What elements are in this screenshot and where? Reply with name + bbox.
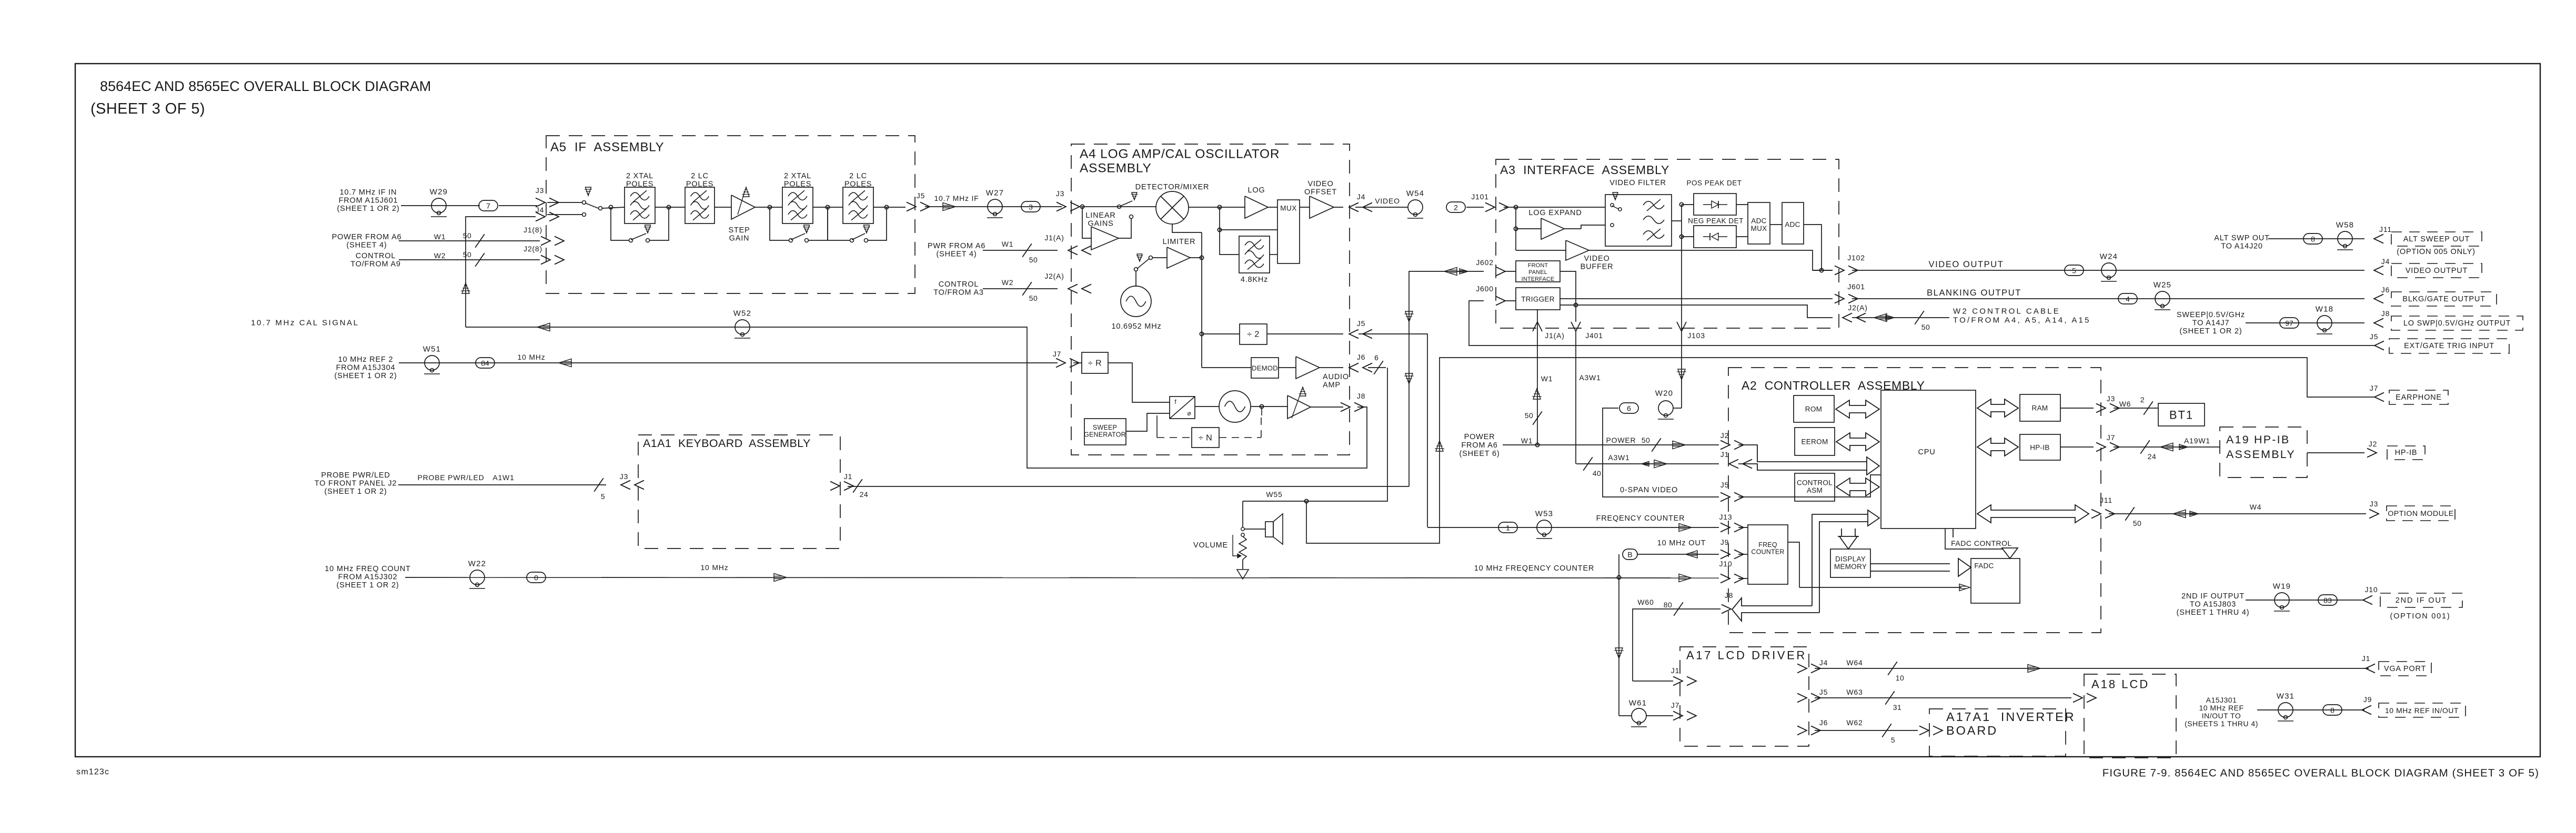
wire freq counter J13: [1427, 527, 1719, 528]
ref oval 1: [1498, 522, 1517, 533]
assembly box A1A1 KEYBOARD ASSEMBLY: [638, 435, 840, 548]
block DEMOD: [1202, 367, 1251, 368]
svg-text:POS PEAK DET: POS PEAK DET: [1686, 179, 1742, 187]
svg-text:A3W1: A3W1: [1579, 373, 1601, 382]
wire A19 to J2: [2307, 452, 2364, 453]
svg-text:W22: W22: [468, 560, 486, 568]
ref oval 6: [1619, 403, 1638, 413]
svg-text:J601: J601: [1847, 282, 1865, 291]
svg-text:10 MHz: 10 MHz: [700, 563, 728, 572]
svg-text:J2: J2: [1720, 431, 1729, 440]
svg-text:A3W1: A3W1: [1608, 453, 1629, 462]
wire 10 MHz out: [1637, 554, 1719, 555]
svg-text:J3: J3: [620, 472, 628, 481]
svg-text:24: 24: [2148, 452, 2157, 461]
wire W63 to LCD: [1815, 697, 2071, 698]
ref oval 8 (10 MHz ref): [2323, 705, 2342, 715]
ref oval 83: [2318, 595, 2337, 605]
svg-text:÷ R: ÷ R: [1088, 359, 1102, 368]
wire LO SWP output: [2246, 322, 2364, 323]
svg-text:BUFFER: BUFFER: [1581, 263, 1614, 271]
block ADC MUX: [1748, 202, 1770, 244]
svg-text:ASSEMBLY: ASSEMBLY: [2226, 448, 2296, 461]
svg-text:ø: ø: [1187, 410, 1191, 417]
connector into A17A1: [1919, 726, 1929, 735]
svg-text:J13: J13: [1719, 513, 1733, 521]
wire FADC control: [1945, 529, 2010, 552]
svg-text:ADC: ADC: [1751, 217, 1766, 225]
wire 0-span video: [1603, 408, 1719, 497]
svg-text:W51: W51: [423, 345, 441, 354]
wire ext/gate trig to TRIGGER: [1469, 301, 2376, 346]
svg-text:50: 50: [1525, 411, 1534, 420]
ref oval 8 (alt sweep): [2303, 233, 2322, 244]
svg-text:FROM A6: FROM A6: [1461, 441, 1497, 450]
svg-text:10.7 MHz IF IN: 10.7 MHz IF IN: [340, 188, 397, 197]
svg-text:POWER: POWER: [1464, 433, 1495, 441]
svg-text:J600: J600: [1476, 285, 1494, 293]
svg-text:(OPTION 005 ONLY): (OPTION 005 ONLY): [2397, 248, 2476, 256]
svg-text:MUX: MUX: [1751, 225, 1767, 232]
svg-text:DETECTOR/MIXER: DETECTOR/MIXER: [1135, 183, 1210, 191]
assembly box A5 IF ASSEMBLY: [546, 136, 915, 293]
svg-text:CONTROL: CONTROL: [1797, 479, 1833, 487]
svg-text:A15J301: A15J301: [2206, 696, 2237, 704]
svg-text:50: 50: [463, 231, 472, 240]
svg-text:INTERFACE: INTERFACE: [1522, 276, 1555, 282]
ref oval 4: [2118, 293, 2137, 304]
ref oval 3: [1021, 201, 1040, 212]
svg-text:SWEEP|0.5V/GHz: SWEEP|0.5V/GHz: [2177, 311, 2245, 319]
wire A4 J5 to freq counter: [1359, 334, 1427, 527]
wire: [813, 207, 843, 208]
cable W18: [2317, 316, 2332, 330]
svg-text:J602: J602: [1476, 258, 1494, 267]
svg-text:A1A1 KEYBOARD ASSEMBLY: A1A1 KEYBOARD ASSEMBLY: [643, 437, 811, 450]
svg-text:TRIGGER: TRIGGER: [1521, 296, 1555, 303]
wire: [1270, 254, 1277, 255]
wire 10 MHz riser: [1618, 554, 1619, 716]
wire J2 power into CPU: [1738, 445, 1867, 462]
svg-text:FROM A15J304: FROM A15J304: [336, 364, 396, 372]
svg-text:J8: J8: [2381, 309, 2390, 318]
cable W19: [2275, 593, 2289, 607]
svg-text:W1: W1: [1002, 240, 1014, 248]
svg-text:40: 40: [1593, 469, 1602, 478]
svg-text:31: 31: [1893, 703, 1902, 712]
ref oval 2: [1446, 202, 1465, 212]
wire: [715, 207, 731, 208]
svg-text:W24: W24: [2100, 252, 2118, 261]
svg-text:ROM: ROM: [1805, 405, 1822, 413]
svg-text:J11: J11: [2379, 225, 2392, 233]
svg-text:FROM A15J601: FROM A15J601: [339, 197, 398, 205]
block FADC: [1971, 558, 2020, 603]
svg-text:A19W1: A19W1: [2184, 436, 2210, 445]
wire VIDEO: [1355, 207, 1408, 208]
wire J6 audio to volume: [1368, 367, 1386, 368]
svg-text:J5: J5: [1720, 481, 1729, 489]
svg-text:(SHEET 1 OR 2): (SHEET 1 OR 2): [337, 205, 400, 213]
svg-text:CONTROL: CONTROL: [356, 252, 396, 260]
block TRIGGER: [1516, 288, 1560, 310]
block f/phase detector: [1170, 397, 1195, 419]
svg-text:EXT/GATE TRIG INPUT: EXT/GATE TRIG INPUT: [2404, 342, 2494, 350]
svg-text:J4: J4: [1819, 658, 1828, 667]
svg-text:J11: J11: [2100, 496, 2112, 504]
svg-text:(SHEET 1 OR 2): (SHEET 1 OR 2): [337, 581, 399, 590]
wire W64 VGA: [1815, 668, 2369, 669]
bus arrow CPU-RAM: [1977, 399, 2018, 417]
wire peak det junctions: [1681, 205, 1682, 237]
svg-text:A3 INTERFACE ASSEMBLY: A3 INTERFACE ASSEMBLY: [1500, 163, 1669, 177]
filter 4.8KHz: [1239, 236, 1270, 273]
ref oval B (10 MHz): [1623, 549, 1637, 560]
wire sweepgen to f-phase: [1126, 413, 1170, 431]
svg-text:J1: J1: [1671, 666, 1679, 675]
svg-text:W60: W60: [1637, 598, 1654, 606]
wire 10 MHz ref to A4 J7: [399, 362, 1058, 363]
block BT1 battery: [2158, 403, 2205, 426]
svg-text:FREQENCY COUNTER: FREQENCY COUNTER: [1596, 514, 1685, 523]
cable W24: [2101, 263, 2116, 278]
svg-text:50: 50: [1921, 323, 1930, 331]
wire to J5: [1267, 333, 1343, 334]
wire W1 to J1(8): [399, 240, 540, 241]
svg-text:W31: W31: [2277, 692, 2295, 701]
svg-text:NEG PEAK DET: NEG PEAK DET: [1688, 217, 1744, 225]
bus arrow CPU to display memory: [1839, 536, 1857, 549]
page border frame: [75, 64, 2540, 757]
svg-text:(SHEET 1 OR 2): (SHEET 1 OR 2): [2180, 327, 2242, 336]
svg-text:83: 83: [2323, 596, 2332, 605]
cable W27: [988, 199, 1002, 214]
wire J1 data into CPU: [1738, 464, 1867, 470]
wire power W1: [1503, 444, 1719, 445]
bypass switch 2: [770, 207, 789, 240]
amplifier AUDIO AMP: [1279, 367, 1296, 368]
svg-text:W62: W62: [1846, 718, 1863, 727]
wire FPI output to J401: [1560, 271, 1576, 322]
svg-text:W53: W53: [1535, 510, 1553, 519]
svg-text:J3: J3: [536, 186, 544, 195]
wire 10 MHz freqency counter long line: [405, 577, 1719, 578]
ref oval 0: [527, 572, 546, 583]
svg-text:J1(A): J1(A): [1044, 233, 1064, 242]
assembly box A4 LOG AMP/CAL OSCILLATOR ASSEMBLY: [1071, 144, 1350, 455]
ref oval 5: [2065, 265, 2084, 276]
svg-text:3: 3: [1029, 203, 1033, 211]
svg-text:J1(A): J1(A): [1545, 331, 1564, 340]
svg-text:W63: W63: [1846, 688, 1863, 696]
svg-text:80: 80: [1664, 601, 1673, 609]
svg-text:EEROM: EEROM: [1801, 438, 1828, 446]
svg-text:W61: W61: [1629, 699, 1647, 708]
cable W52: [735, 320, 750, 334]
svg-text:PANEL: PANEL: [1528, 269, 1547, 276]
svg-text:J103: J103: [1687, 331, 1705, 340]
svg-text:10 MHz FREQ COUNT: 10 MHz FREQ COUNT: [325, 565, 410, 573]
svg-text:÷ N: ÷ N: [1199, 434, 1212, 443]
svg-text:J6: J6: [1819, 718, 1828, 727]
svg-text:10 MHz REF IN/OUT: 10 MHz REF IN/OUT: [2385, 706, 2459, 715]
svg-text:TO A15J803: TO A15J803: [2190, 601, 2236, 609]
assembly box A17A1 INVERTER BOARD: [1929, 709, 2066, 756]
bus arrow CPU-J11: [1977, 505, 2089, 523]
svg-text:(SHEET 3 OF 5): (SHEET 3 OF 5): [90, 100, 205, 117]
assembly box A17 LCD DRIVER: [1680, 647, 1809, 746]
flow arrow: [943, 203, 955, 211]
svg-text:W25: W25: [2154, 281, 2171, 290]
svg-text:TO/FROM A3: TO/FROM A3: [933, 289, 984, 297]
speaker: [1244, 529, 1265, 530]
svg-text:ADC: ADC: [1785, 221, 1800, 229]
cable W25: [2155, 291, 2170, 306]
svg-text:2: 2: [2140, 395, 2145, 404]
dashed feedback wires: [1156, 415, 1158, 438]
svg-text:OPTION MODULE: OPTION MODULE: [2388, 510, 2454, 518]
svg-text:2ND IF OUT: 2ND IF OUT: [2396, 596, 2448, 605]
cable W51: [425, 355, 439, 370]
svg-text:W52: W52: [733, 309, 751, 318]
block EEROM: [1795, 428, 1835, 455]
cable W53: [1537, 520, 1552, 535]
svg-text:4: 4: [2126, 295, 2130, 303]
svg-text:J5: J5: [1357, 319, 1365, 328]
svg-text:J3: J3: [1056, 189, 1064, 198]
svg-text:J1(8): J1(8): [524, 226, 542, 234]
svg-text:POWER FROM A6: POWER FROM A6: [332, 233, 402, 241]
off-sheet arrow up: [462, 283, 469, 293]
svg-text:J2(A): J2(A): [1044, 272, 1064, 280]
svg-text:97: 97: [2285, 319, 2293, 328]
wire J8 fat arrow (display bus): [1732, 598, 1819, 621]
svg-text:2 LC: 2 LC: [691, 172, 709, 180]
svg-text:24: 24: [860, 490, 869, 499]
wire 10.7 MHz IF: [925, 206, 1062, 207]
svg-text:J3: J3: [2370, 500, 2378, 508]
bus arrow CONTROL ASM-CPU: [1836, 478, 1879, 496]
wire video buffer to J102: [1589, 250, 1833, 270]
svg-text:A19 HP-IB: A19 HP-IB: [2226, 433, 2290, 446]
svg-text:RAM: RAM: [2032, 404, 2048, 412]
wire J5 into CPU: [1738, 475, 1880, 497]
svg-text:PROBE PWR/LED: PROBE PWR/LED: [321, 471, 390, 480]
svg-text:J5: J5: [1819, 688, 1828, 696]
svg-text:W27: W27: [986, 189, 1004, 198]
cable W20: [1658, 401, 1673, 415]
svg-text:POWER: POWER: [1606, 436, 1636, 444]
svg-text:ALT SWEEP OUT: ALT SWEEP OUT: [2403, 235, 2470, 243]
svg-text:FADC CONTROL: FADC CONTROL: [1951, 539, 2012, 547]
bus arrow into CPU left: [1867, 457, 1879, 475]
svg-text:BOARD: BOARD: [1946, 724, 1998, 737]
wire filter out: [1672, 220, 1682, 221]
svg-text:J5: J5: [2370, 332, 2378, 341]
wire freq counter out: [1788, 542, 1799, 587]
svg-text:AUDIO: AUDIO: [1323, 373, 1349, 381]
svg-text:J101: J101: [1471, 192, 1489, 201]
svg-text:STEP: STEP: [728, 226, 750, 235]
wire mid tap: [1220, 207, 1277, 230]
svg-text:W54: W54: [1406, 189, 1424, 198]
svg-text:10 MHz REF: 10 MHz REF: [2199, 704, 2243, 712]
svg-text:(OPTION 001): (OPTION 001): [2390, 612, 2450, 621]
svg-text:BT1: BT1: [2169, 409, 2193, 422]
assembly box A18 LCD: [2084, 674, 2176, 758]
svg-text:1: 1: [1506, 524, 1510, 532]
svg-text:÷ 2: ÷ 2: [1247, 330, 1260, 339]
cable W61: [1632, 708, 1646, 723]
svg-text:50: 50: [1642, 436, 1651, 444]
svg-text:50: 50: [463, 250, 472, 259]
svg-text:5: 5: [1891, 736, 1895, 744]
wire: [873, 207, 905, 208]
svg-text:J3: J3: [2107, 394, 2115, 403]
svg-text:ASM: ASM: [1807, 486, 1823, 494]
svg-text:W6: W6: [2119, 400, 2131, 408]
svg-text:A1W1: A1W1: [492, 473, 514, 482]
wire W1 to J1(A): [983, 250, 1058, 251]
svg-text:W29: W29: [430, 188, 448, 197]
svg-text:MUX: MUX: [1280, 205, 1297, 212]
svg-text:ALT SWP OUT: ALT SWP OUT: [2214, 234, 2270, 242]
svg-text:J2(A): J2(A): [1848, 303, 1867, 312]
block divide-by-2: [1202, 333, 1240, 334]
svg-text:CPU: CPU: [1918, 448, 1935, 456]
svg-text:VGA PORT: VGA PORT: [2384, 665, 2426, 673]
svg-text:J7: J7: [2370, 384, 2378, 392]
svg-text:VOLUME: VOLUME: [1193, 541, 1228, 550]
svg-text:sm123c: sm123c: [76, 768, 109, 777]
block MUX: [1277, 200, 1300, 263]
svg-text:HP-IB: HP-IB: [2030, 444, 2050, 452]
svg-text:10 MHz OUT: 10 MHz OUT: [1657, 539, 1706, 547]
wire: [1189, 207, 1245, 208]
svg-text:VIDEO: VIDEO: [1307, 180, 1333, 188]
cable W58: [2338, 231, 2352, 246]
block DISPLAY MEMORY: [1830, 549, 1870, 577]
svg-text:J6: J6: [2381, 286, 2390, 294]
wire: [499, 205, 537, 206]
oscillator (cal VCO): [1195, 406, 1219, 407]
wire probe pwr: [398, 484, 606, 485]
svg-text:(SHEET 1 OR 2): (SHEET 1 OR 2): [335, 372, 397, 380]
assembly box A19 HP-IB ASSEMBLY: [2220, 427, 2307, 478]
wire: [755, 207, 782, 208]
svg-text:TO A14J7: TO A14J7: [2192, 319, 2230, 328]
svg-text:J102: J102: [1847, 253, 1865, 262]
block ADC: [1770, 224, 1782, 225]
svg-text:J1: J1: [1720, 450, 1729, 459]
svg-text:50: 50: [1029, 294, 1038, 302]
svg-text:BLKG/GATE OUTPUT: BLKG/GATE OUTPUT: [2402, 295, 2486, 303]
svg-text:4.8KHz: 4.8KHz: [1241, 276, 1268, 284]
svg-text:VIDEO OUTPUT: VIDEO OUTPUT: [1929, 260, 2004, 269]
mixer LO feed switch: [1134, 268, 1138, 271]
oscillator 10.6952 MHz: [1135, 271, 1136, 287]
block FRONT PANEL INTERFACE: [1516, 261, 1560, 282]
wire W60: [1633, 609, 1720, 681]
wire HP-IB to A19: [2060, 446, 2094, 448]
cable W29: [431, 198, 446, 213]
svg-text:50: 50: [2133, 519, 2142, 527]
bus arrow into CPU left (display data): [1868, 510, 1879, 526]
wire main video line: [1081, 206, 1156, 207]
wire IF main line in A5: [547, 202, 582, 203]
svg-text:J7: J7: [1671, 701, 1679, 709]
ref oval 7: [479, 200, 498, 211]
svg-text:8: 8: [2311, 235, 2315, 243]
wire 10.7 MHz CAL SIGNAL loop: [466, 327, 1367, 468]
svg-text:A17 LCD DRIVER: A17 LCD DRIVER: [1686, 649, 1807, 662]
svg-text:J8: J8: [1357, 392, 1365, 400]
svg-text:TO A14J20: TO A14J20: [2221, 242, 2262, 251]
svg-text:W2: W2: [1002, 278, 1014, 287]
svg-text:W64: W64: [1846, 658, 1863, 667]
block RAM: [2020, 394, 2060, 421]
svg-text:VIDEO FILTER: VIDEO FILTER: [1609, 179, 1666, 187]
svg-text:5: 5: [2072, 267, 2076, 275]
wire W2 to J2(8): [399, 259, 540, 260]
svg-text:J401: J401: [1585, 331, 1603, 340]
bus arrow ROM-CPU: [1836, 400, 1879, 418]
svg-text:10 MHz REF 2: 10 MHz REF 2: [338, 355, 394, 364]
wire J4 cal input riser: [466, 217, 536, 327]
amplifier VIDEO BUFFER: [1516, 250, 1566, 251]
assembly box A2 CONTROLLER ASSEMBLY: [1728, 368, 2101, 633]
svg-text:6: 6: [1627, 404, 1631, 413]
flow arrow left: [537, 323, 550, 331]
svg-text:TO/FROM A4, A5, A14, A15: TO/FROM A4, A5, A14, A15: [1953, 316, 2091, 325]
svg-text:VIDEO: VIDEO: [1375, 197, 1400, 205]
svg-text:PWR FROM A6: PWR FROM A6: [928, 242, 985, 250]
wire limiter to mixer branch: [1172, 224, 1202, 232]
svg-text:W55: W55: [1266, 490, 1282, 499]
wire vertical audio branch: [1201, 232, 1202, 368]
svg-text:W1: W1: [1541, 374, 1553, 383]
svg-text:W4: W4: [2250, 503, 2262, 511]
svg-text:(SHEET 1 THRU 4): (SHEET 1 THRU 4): [2177, 608, 2250, 617]
svg-text:LINEAR: LINEAR: [1085, 211, 1115, 220]
svg-text:SWEEP: SWEEP: [1093, 424, 1117, 431]
svg-text:ASSEMBLY: ASSEMBLY: [1080, 161, 1152, 176]
svg-text:50: 50: [1029, 256, 1038, 264]
block CONTROL ASM: [1795, 473, 1835, 501]
svg-text:GAIN: GAIN: [729, 235, 750, 243]
svg-text:2ND IF OUTPUT: 2ND IF OUTPUT: [2181, 592, 2245, 601]
svg-text:FRONT: FRONT: [1528, 262, 1548, 269]
wire: [401, 205, 480, 206]
svg-text:OFFSET: OFFSET: [1304, 188, 1337, 197]
input select switch: [582, 201, 586, 205]
svg-text:5: 5: [601, 492, 605, 501]
svg-text:J7: J7: [1053, 350, 1061, 358]
cable W54: [1408, 200, 1423, 215]
block SWEEP GENERATOR: [1084, 419, 1126, 445]
svg-text:DISPLAY: DISPLAY: [1835, 555, 1866, 563]
bypass switch 1: [611, 207, 629, 240]
svg-text:FADC: FADC: [1974, 562, 1994, 570]
svg-text:10 MHz FREQENCY COUNTER: 10 MHz FREQENCY COUNTER: [1474, 564, 1594, 573]
svg-text:8564EC AND 8565EC OVERALL BLOC: 8564EC AND 8565EC OVERALL BLOCK DIAGRAM: [100, 78, 431, 94]
block CPU: [1881, 390, 1976, 529]
wire W2 to J2(A): [983, 288, 1058, 289]
wire A3W1 to A2 J1: [1576, 463, 1719, 464]
wire to MUX: [1268, 207, 1277, 208]
ref oval 84: [476, 358, 495, 368]
svg-text:J4: J4: [1357, 192, 1365, 201]
